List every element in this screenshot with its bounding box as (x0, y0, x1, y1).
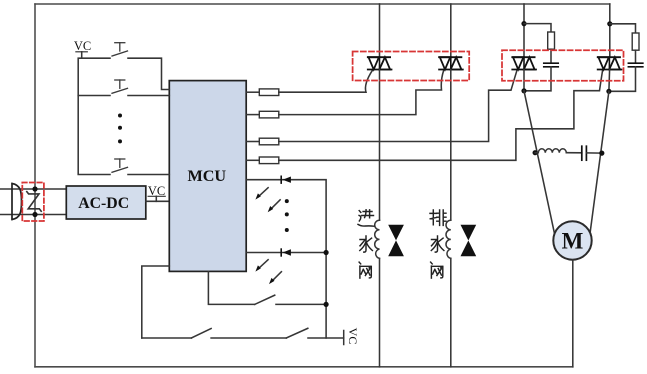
relay arrow a3 (258, 260, 268, 269)
wire: bottom AC bus (35, 366, 573, 368)
wire: MCU out row4 (246, 159, 259, 161)
wire: drain valve to bottom bus (450, 258, 452, 366)
wire: S1 to MCU pin (128, 58, 169, 89)
snubber C1 (544, 62, 558, 64)
inlet valve coil L1 (375, 220, 380, 258)
varistor Z1 (27, 192, 41, 212)
resistor R2 (259, 111, 279, 118)
wire: row3 to triac T3 gate (279, 70, 517, 141)
svg-text:AC-DC: AC-DC (78, 195, 129, 212)
capacitor C3 (566, 152, 582, 154)
wire: MCU out row2 (246, 114, 259, 116)
wire: AC line N (0, 214, 66, 216)
wire: AC-DC to MCU (146, 200, 170, 202)
wire: triac T2 to drain valve coil (450, 70, 452, 221)
wire: left AC bus (34, 4, 36, 367)
valve body symbol (inlet) (388, 225, 404, 257)
junction: T4 snubber bottom (606, 89, 611, 94)
key switch S1 (112, 43, 128, 56)
inductor L3 (535, 149, 566, 153)
svg-text:M: M (562, 229, 584, 254)
glyph 阀 (drain) (431, 262, 443, 278)
glyph 水 (inlet) (360, 236, 373, 252)
relay arrow a1 (258, 188, 268, 197)
wire: valve 1 column top (379, 4, 381, 57)
dots: more relays (285, 199, 289, 203)
wire: AC line L (0, 188, 66, 190)
snubber R6 (610, 24, 636, 33)
wire: MCU relay drive A (246, 180, 326, 338)
motor M1 (553, 221, 591, 259)
VC terminal of bottom row (343, 331, 345, 345)
relay arrow a4 (272, 272, 282, 282)
key switch S2 (112, 80, 128, 93)
resistor R1 (259, 89, 279, 96)
wire: MCU relay drive B (246, 252, 326, 254)
valve body symbol (drain) (461, 225, 477, 257)
svg-text:MCU: MCU (187, 167, 226, 185)
dots: more keys (118, 114, 122, 118)
wire: row4 to triac T4 gate (279, 70, 603, 160)
wire: S2 to MCU pin (128, 95, 169, 97)
wire: motor to bottom bus (572, 260, 574, 367)
svg-text:VC: VC (346, 328, 360, 345)
junction: LC branch left (533, 150, 538, 155)
wire: row1 to triac T1 gate (279, 70, 373, 92)
wire: triac T3 column top (523, 4, 525, 57)
red dashed box around T3 T4 (502, 50, 624, 80)
wire: row2 to triac T2 gate (279, 70, 444, 114)
snubber C2 (628, 62, 642, 64)
wire: SW3 to vertical (276, 303, 326, 305)
wire: triac T1 to inlet valve coil (379, 70, 381, 221)
wire: MCU out row1 (246, 91, 259, 93)
drain valve coil L2 (446, 220, 451, 258)
wire: S3 to MCU pin (128, 174, 169, 176)
triac T3 (512, 57, 536, 69)
wire: key row 2 (78, 95, 110, 97)
wire: bottom row left (142, 337, 192, 339)
wire: bottom row mid (211, 337, 286, 339)
red dashed box around T1 T2 (353, 52, 470, 81)
AC-DC converter U2 (66, 186, 146, 219)
triac T1 (368, 57, 392, 69)
key switch S3 (112, 159, 128, 172)
label: inlet valve (进水阀) (358, 210, 374, 226)
wire: MCU out row3 (246, 141, 259, 143)
wire: MCU bottom pin (208, 271, 254, 304)
junction: plug line N / left bus (32, 212, 37, 217)
red dashed box around Z1 (22, 183, 44, 222)
switch SW3 blade (255, 295, 275, 304)
junction: T4 snubber top (607, 21, 612, 26)
junction: drive B / vertical (324, 250, 329, 255)
resistor R3 (259, 138, 279, 145)
junction: LC branch right (599, 151, 604, 156)
junction: wire3 / vertical (324, 302, 329, 307)
MCU U1 (169, 81, 246, 272)
resistor R4 (259, 157, 279, 164)
triac T2 (439, 57, 463, 69)
wire: T3 to motor (left diagonal) (524, 91, 554, 233)
wire: valve 2 column top (450, 4, 452, 57)
junction: T3 snubber top (521, 21, 526, 26)
wire: top AC bus (35, 3, 610, 5)
snubber R5 (524, 24, 551, 32)
AC plug P1 (12, 184, 22, 220)
wire: bottom row right (308, 337, 344, 339)
wire: MCU left loop to bottom row (142, 266, 170, 338)
triac T4 (598, 57, 622, 69)
switch SW5 blade (286, 328, 308, 338)
switch SW4 blade (191, 329, 211, 339)
junction: T3 snubber bottom (521, 88, 526, 93)
label: drain valve (排水阀) (430, 210, 446, 225)
glyph 阀 (inlet) (359, 262, 371, 278)
svg-text:VC: VC (74, 39, 91, 53)
relay arrow a2 (270, 200, 280, 210)
junction: plug line L / left bus (32, 186, 37, 191)
wire: triac T4 column top (609, 4, 611, 57)
glyph 水 (drain) (431, 236, 444, 252)
diode D1 (280, 176, 282, 183)
wire: inlet valve to bottom bus (379, 258, 381, 366)
wire: key matrix left bus (78, 58, 110, 174)
diode D2 (280, 249, 282, 256)
wire: T4 to motor (right diagonal) (590, 91, 609, 231)
